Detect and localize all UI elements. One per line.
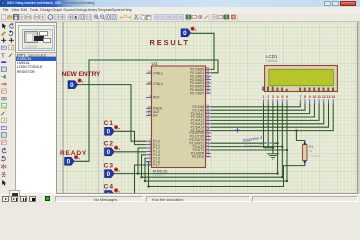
U1 pin 25 P2.4/A12 [206,119,211,121]
LCD1 pin 7 D0 [299,100,301,104]
title bar [0,0,360,7]
ground [267,153,279,160]
wire supply join [264,147,273,149]
svg-text:9: 9 [309,95,311,99]
LCD1 pin 5 RW [281,100,283,104]
wire READY toggle to U1 P0.1 [74,60,218,161]
U1 pin 7 P1.6 [146,161,151,163]
svg-text:RST: RST [153,96,160,100]
U1 pin 27 P2.6/A14 [206,126,211,128]
annotation text [243,135,264,143]
U1 pin 19 XTAL1 [146,72,151,74]
svg-text:<TEXT>: <TEXT> [309,154,321,158]
LCD1 LM016L body [265,66,338,92]
wire C4 toggle to U1 P1.7 [114,165,146,195]
object selector header [15,52,57,57]
junction at 282.3,146.6 [281,145,283,147]
wire C3 toggle / bottom bus to LCD RS [114,104,277,174]
junction at 138,173.6 [137,172,139,174]
wire U1 P3.3 to RS net [211,142,278,144]
svg-text:P3.7/RD: P3.7/RD [192,155,205,159]
svg-text:P1.7: P1.7 [153,163,160,167]
wire U1 P2.7 to LCD data [211,104,333,131]
wire U1 P3.4 to RW net [211,146,282,148]
svg-text:0: 0 [70,82,74,89]
U1 pin 12 P3.2/INT0 [206,139,211,141]
wire U1 P2.5 to LCD data [211,104,324,124]
U1 pin 34 P0.5/AD5 [206,85,211,87]
svg-text:12: 12 [322,95,326,99]
U1 pin 17 P3.7/RD [206,156,211,158]
U1 pin 21 P2.0/A8 [206,106,211,108]
wire riser to U1 P1.6 [146,162,148,187]
svg-text:18: 18 [148,81,152,85]
svg-text:<TEXT>: <TEXT> [153,174,165,178]
U1 pin 28 P2.7/A15 [206,130,211,132]
svg-text:19: 19 [148,70,152,74]
svg-text:0: 0 [183,30,187,37]
logic toggle C2 [105,148,115,156]
U1 pin 9 RST [146,97,151,99]
U1 pin 8 P1.7 [146,164,151,166]
overview window [15,22,57,53]
object selector list [15,57,57,193]
LCD green screen [269,69,334,85]
svg-text:RESULT: RESULT [150,38,190,47]
svg-text:6: 6 [286,95,288,99]
svg-text:2: 2 [267,95,269,99]
logic toggle READY [65,157,75,165]
svg-text:T: T [1,53,5,59]
U1 pin 18 XTAL2 [146,83,151,85]
U1 pin 26 P2.5/A13 [206,123,211,125]
U1 pin 39 P0.0/AD0 [206,68,211,70]
wire U1 P2.2 to LCD data [211,104,310,114]
U1 pin 11 P3.1/TXD [206,135,211,137]
svg-text:4: 4 [277,95,279,99]
LCD1 pin 13 D6 [328,100,330,104]
sheet tab button [9,190,20,197]
U1 pin 37 P0.2/AD2 [206,75,211,77]
junction at 287,150 [286,149,288,151]
svg-text:C2: C2 [104,141,114,148]
U1 pin 35 P0.4/AD4 [206,82,211,84]
U1 pin 4 P1.3 [146,150,151,152]
junction at 141.5,177.2 [140,176,142,178]
wire RESULT toggle to U1 P0.0 [191,33,214,69]
svg-text:READY: READY [60,150,87,157]
svg-text:XTAL2: XTAL2 [153,82,163,86]
wire U1 P2.4 to LCD data [211,104,319,121]
left tool columns [0,22,15,194]
U1 pin 36 P0.3/AD3 [206,79,211,81]
svg-text:17: 17 [206,153,210,157]
svg-text:3: 3 [272,95,274,99]
U1 pin 3 P1.2 [146,147,151,149]
U1 pin 23 P2.2/A10 [206,113,211,115]
node marker cross [235,128,240,133]
wire LCD VEE down to ground [272,104,274,153]
U1 pin 10 P3.0/RXD [206,132,211,134]
U1 pin 22 P2.1/A9 [206,109,211,111]
svg-text:7: 7 [299,95,301,99]
U1 pin 13 P3.3/INT1 [206,142,211,144]
toolbar [0,14,360,23]
LCD1 pin 11 D4 [318,100,320,104]
svg-text:0: 0 [107,171,111,178]
svg-text:XTAL1: XTAL1 [153,71,163,75]
menu bar [0,7,360,14]
U1 pin 29 PSEN [146,107,151,109]
wire R1 top wire [296,131,304,145]
junction at 148.5,186.5 [147,185,149,187]
junction at 277.6,173.6 [276,172,278,174]
wire U1 P2.6 to LCD data [211,104,329,128]
LCD1 pin 6 E [286,100,288,104]
canvas frame [56,22,358,194]
logic toggle C1 [105,127,115,135]
svg-text:0: 0 [107,149,111,156]
resistor R1 [303,145,307,161]
wire riser bottom bus to U1 P1.3 [138,148,146,174]
wire LCD VDD down [267,104,269,148]
wire LCD E bottom bus to U1 P1.5 [145,104,287,182]
junction at 282.3,177.2 [281,176,283,178]
U1 pin 14 P3.4/T0 [206,146,211,148]
LCD1 pin 9 D2 [309,100,311,104]
wire C1 toggle to U1 P1.1 [114,131,146,144]
LCD1 pin 8 D1 [304,100,306,104]
status bar [0,194,360,203]
U1 pin 6 P1.5 [146,157,151,159]
svg-text:11: 11 [317,95,321,99]
LCD1 pin 12 D5 [323,100,325,104]
svg-text:0: 0 [67,159,71,166]
junction at 296.4,130.6 [295,129,297,131]
svg-text:5: 5 [281,95,283,99]
wire R1 bottom to bottom bus [149,161,305,187]
logic toggle NEW ENTRY [68,81,78,89]
wire NEW ENTRY toggle to U1 P1.0 [78,85,146,142]
wire U1 P2.3 to LCD data [211,104,315,118]
svg-text:1: 1 [263,95,265,99]
LCD1 pin 2 VDD [267,100,269,104]
U1 pin 31 EA [146,115,151,117]
junction at 145,181 [144,180,146,182]
U1 pin 16 P3.6/WR [206,152,211,154]
mcu U1 AT89C51 body [152,66,206,168]
U1 pin 24 P2.3/A11 [206,116,211,118]
junction at 277.6,143.2 [276,142,278,144]
svg-text:1k: 1k [309,149,313,153]
wire U1 P2.1 to LCD data [211,104,305,111]
wire C2 toggle to U1 P1.2 [114,151,146,153]
svg-text:0: 0 [107,129,111,136]
svg-text:14: 14 [331,95,335,99]
LCD1 pin 14 D7 [332,100,334,104]
U1 pin 2 P1.1 [146,144,151,146]
svg-text:31: 31 [148,112,152,116]
svg-text:13: 13 [327,95,331,99]
wire LCD VSS down [263,104,265,148]
wire LCD RW bottom bus to U1 P1.4 [142,104,283,178]
logic toggle RESULT [181,29,191,37]
U1 pin 38 P0.1/AD1 [206,72,211,74]
U1 pin 15 P3.5/T1 [206,149,211,151]
svg-text:10: 10 [312,95,316,99]
logic toggle C4 [105,191,115,199]
svg-text:C4: C4 [104,183,114,190]
junction at 272.9,147.8 [272,147,274,149]
svg-text:8: 8 [304,95,306,99]
U1 pin 33 P0.6/AD6 [206,89,211,91]
U1 pin 1 P1.0 [146,140,151,142]
logic toggle C3 [105,170,115,178]
svg-text:C3: C3 [104,163,114,170]
LCD1 pin 3 VEE [272,100,274,104]
svg-text:P0.7/AD7: P0.7/AD7 [190,91,204,95]
svg-text:NEW ENTRY: NEW ENTRY [62,71,101,78]
svg-text:C1: C1 [104,120,114,127]
U1 pin 32 P0.7/AD7 [206,92,211,94]
U1 pin 5 P1.4 [146,154,151,156]
U1 pin 30 ALE [146,111,151,113]
svg-text:32: 32 [206,90,210,94]
LCD1 pin 1 VSS [263,100,265,104]
junction at 287,181 [286,180,288,182]
wire U1 P2.0 to LCD data [211,104,300,107]
LCD1 pin 10 D3 [313,100,315,104]
svg-text:U1: U1 [152,61,158,66]
animation control buttons [2,196,58,202]
LCD1 pin 4 RS [277,100,279,104]
svg-text:LM016L: LM016L [266,59,278,63]
wire U1 P3.5 to E net [211,149,287,151]
right window edge [358,22,360,194]
